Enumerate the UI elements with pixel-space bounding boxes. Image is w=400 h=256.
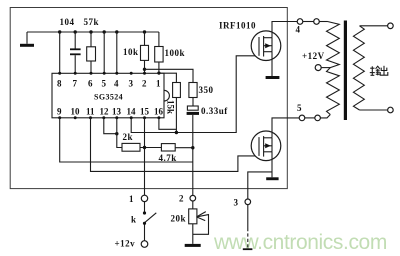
svg-text:IRF1010: IRF1010: [219, 21, 256, 31]
svg-text:10: 10: [71, 107, 81, 117]
IC U1 SG3524 body: [52, 73, 169, 118]
resistor R4 350: [189, 83, 197, 107]
pin connection dots top edge: [58, 72, 160, 75]
junction on bus at pin4 column: [115, 30, 118, 33]
svg-text:104: 104: [60, 17, 75, 27]
transformer T1 primary winding: [327, 22, 340, 115]
capacitor C2 0.33uf: [187, 106, 199, 195]
wire 4.7k to cap column: [175, 147, 193, 149]
svg-text:3: 3: [129, 79, 134, 89]
transformer T1 core: [344, 21, 347, 121]
svg-text:6: 6: [88, 79, 93, 89]
terminal 4 connector pair: [297, 19, 327, 25]
svg-text:4: 4: [114, 79, 119, 89]
junction 15k bottom on gate row: [175, 131, 178, 134]
svg-text:10k: 10k: [123, 47, 139, 57]
ground upper source bar: [266, 52, 280, 79]
svg-text:3: 3: [234, 198, 239, 208]
svg-text:k: k: [131, 215, 136, 225]
wire pin 9 row: [60, 118, 193, 162]
wire pin 11 to lower MOSFET gate: [91, 118, 260, 172]
svg-text:15k: 15k: [166, 100, 176, 114]
junction pin1 node: [157, 72, 160, 75]
svg-text:12: 12: [100, 107, 110, 117]
terminal 2 circle: [190, 195, 196, 201]
svg-text:www.cntronics.com: www.cntronics.com: [213, 231, 387, 254]
svg-text:100k: 100k: [165, 48, 186, 58]
terminal 3 circle: [245, 199, 251, 205]
potentiometer RP1 20k: [189, 209, 209, 244]
svg-text:SG3524: SG3524: [94, 93, 123, 102]
junction on bus at pin5 column: [103, 30, 106, 33]
terminal 1 circle: [141, 195, 147, 201]
wire lower drain up to terminal 5: [272, 118, 299, 138]
svg-text:7: 7: [73, 79, 78, 89]
transformer T1 secondary winding: [353, 26, 364, 110]
svg-text:+12v: +12v: [115, 239, 136, 249]
resistor R5 15k: [173, 83, 181, 133]
svg-text:14: 14: [127, 107, 137, 117]
svg-text:4.7k: 4.7k: [159, 153, 177, 163]
resistor R3 100k: [155, 32, 163, 73]
wire 2k to 4.7k: [140, 147, 161, 149]
resistor R7 4.7k: [161, 144, 175, 151]
wire bus to pin 5: [103, 32, 105, 73]
svg-text:8: 8: [57, 79, 62, 89]
svg-text:20k: 20k: [171, 214, 187, 224]
svg-text:9: 9: [57, 107, 62, 117]
svg-text:2k: 2k: [123, 132, 134, 142]
junction on bus at 10k column: [143, 30, 146, 33]
svg-text:15: 15: [140, 107, 150, 117]
terminal secondary bottom: [388, 107, 394, 113]
terminal secondary top: [388, 23, 394, 29]
wire bus to pin 4: [116, 32, 118, 73]
svg-text:1: 1: [129, 194, 134, 204]
terminal +12v circle: [141, 241, 148, 248]
wire pin 15 down to terminal 1: [144, 118, 146, 195]
junction pin12-pin13: [115, 132, 118, 135]
junction on bus at 57k column: [89, 30, 92, 33]
transistor Q2 IRF1010 lower: [251, 131, 281, 161]
wire terminal 2 to pot: [192, 201, 194, 209]
wire secondary top lead: [360, 25, 388, 27]
wire pin1 node to 15k resistor: [159, 73, 177, 82]
svg-text:1: 1: [156, 79, 161, 89]
wire pin 13 to 2k: [117, 118, 122, 148]
resistor R2 10k: [141, 32, 149, 73]
switch K wire and contacts: [143, 202, 156, 241]
junction on bus at cap column: [74, 30, 77, 33]
wire bus to pin 8: [59, 32, 61, 73]
resistor R6 2k: [122, 143, 140, 151]
svg-text:+12V: +12V: [302, 51, 325, 61]
svg-text:57k: 57k: [84, 17, 100, 27]
transistor Q1 IRF1010 upper: [251, 31, 281, 61]
border frame of module: [10, 8, 287, 189]
wire top supply bus: [27, 31, 159, 33]
wire pin 16 jog to 15k bottom: [159, 118, 177, 130]
ground lower source bar: [266, 152, 278, 180]
junction on bus at pin8 column: [58, 30, 61, 33]
wire terminal 3 dashed stub: [247, 205, 249, 248]
wire pin 12 jog: [104, 118, 117, 134]
pin connection dots bottom edge: [58, 116, 160, 119]
wire secondary bottom lead: [360, 109, 388, 111]
wire upper drain up to terminal 4: [272, 22, 297, 38]
wire terminal 3 to lower source: [248, 172, 272, 199]
terminal +12V center tap: [315, 65, 330, 71]
resistor R1 57k: [87, 32, 96, 73]
junction pin2 node: [143, 68, 146, 71]
svg-text:350: 350: [199, 85, 214, 95]
label output (Chinese 输出): [370, 66, 388, 76]
svg-text:5: 5: [102, 79, 107, 89]
svg-text:2: 2: [179, 194, 184, 204]
svg-text:13: 13: [112, 107, 122, 117]
terminal 5 connector pair: [299, 115, 330, 121]
wire pin2 node to 350 resistor: [145, 69, 194, 82]
svg-text:5: 5: [297, 103, 302, 113]
svg-text:4: 4: [296, 25, 301, 35]
junction on terminal1 column: [143, 146, 146, 149]
wire pin 14 row to upper MOSFET gate: [131, 56, 259, 133]
svg-text:11: 11: [86, 107, 95, 117]
svg-text:2: 2: [142, 79, 147, 89]
svg-text:0.33uf: 0.33uf: [201, 106, 228, 116]
capacitor C1 104: [70, 32, 81, 73]
junction 4.7k cap column: [191, 146, 194, 149]
svg-text:16: 16: [154, 107, 164, 117]
ground terminal 3: [243, 248, 253, 250]
ground pot bottom: [185, 244, 201, 247]
ground G1 top-left: [20, 32, 34, 47]
